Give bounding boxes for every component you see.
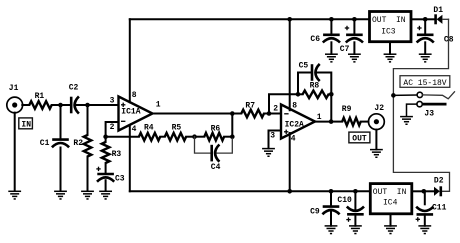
wire D1 to AC rail (443, 18, 448, 20)
wire J1 ground lead (14, 113, 16, 191)
svg-text:C1: C1 (40, 139, 50, 148)
wire C1 ground lead (60, 148, 62, 192)
wire C8 top lead (424, 19, 426, 34)
wire C3 ground lead (105, 180, 107, 191)
capacitor C10 plus sign (346, 217, 350, 221)
wire node to R9 (331, 121, 342, 123)
svg-text:IC4: IC4 (383, 199, 398, 208)
resistor R6 (204, 133, 224, 141)
connector J3 center pin circle (417, 92, 422, 97)
wire IC2A output (315, 121, 331, 123)
svg-text:C6: C6 (310, 35, 320, 44)
ground R2 (81, 191, 94, 199)
svg-text:1: 1 (317, 113, 322, 122)
svg-text:2: 2 (273, 105, 278, 114)
IN box label (19, 118, 33, 130)
wire node to R6 (195, 136, 205, 138)
resistor R5 (165, 133, 186, 141)
wire C6 ground lead (330, 42, 332, 54)
wire R8 to node (329, 93, 332, 95)
ground IC2A pin3 (262, 149, 275, 157)
svg-text:R8: R8 (310, 82, 320, 91)
wire R1 to C1 node (52, 104, 61, 106)
svg-text:R3: R3 (112, 150, 122, 159)
svg-text:8: 8 (132, 91, 137, 100)
wire node to R4 (106, 136, 139, 138)
wire C5 left lead (298, 73, 311, 95)
wire node to R8 (298, 93, 303, 95)
svg-text:J3: J3 (424, 109, 434, 118)
capacitor C9 (322, 207, 339, 215)
wire R7 to node (264, 113, 269, 115)
svg-text:4: 4 (132, 125, 137, 134)
svg-text:C4: C4 (211, 163, 221, 172)
wire J3 center pin (393, 94, 417, 96)
svg-text:IC2A: IC2A (285, 121, 304, 130)
wire C7 top lead (353, 19, 355, 34)
capacitor C10 (347, 207, 364, 215)
capacitor C11 plus sign (416, 217, 420, 221)
AC 15-18V box label (400, 76, 450, 88)
svg-text:C9: C9 (310, 207, 320, 216)
capacitor C4 (212, 145, 220, 162)
capacitor C3 (97, 174, 114, 182)
capacitor C5 (312, 64, 320, 81)
svg-text:2: 2 (110, 123, 115, 132)
op-amp IC1A minus sign (121, 120, 125, 122)
resistor R1 (29, 101, 51, 109)
wire C6 top lead (330, 19, 332, 34)
wire R2 top lead (87, 105, 89, 135)
wire IC2A pin4 to bottom rail (289, 133, 291, 191)
node R5/R6/C4 junction (192, 134, 197, 139)
ground IC3 (384, 54, 397, 62)
svg-text:C5: C5 (299, 62, 309, 71)
wire J1 to R1 (22, 104, 29, 106)
resistor R8 (303, 91, 329, 99)
wire pin2 node up (269, 94, 298, 113)
svg-text:OUT IN: OUT IN (372, 16, 406, 25)
wire R5 to node (186, 136, 194, 138)
wire C4 left lead (195, 137, 211, 153)
node C11/D2 junction (422, 189, 427, 194)
capacitor C1 (52, 140, 69, 148)
op-amp IC1A (119, 97, 153, 131)
capacitor C2 (71, 96, 79, 113)
ground IC4 (384, 226, 397, 234)
ground C8 (419, 54, 432, 62)
ground C3 (99, 191, 112, 199)
diode D2 (434, 186, 441, 196)
op-amp IC2A (281, 105, 315, 139)
wire top supply rail (130, 18, 369, 20)
capacitor C6 (323, 35, 340, 43)
wire C11 top lead (424, 191, 426, 204)
svg-text:IN: IN (21, 121, 31, 130)
capacitor C11 (416, 207, 433, 215)
capacitor C7 (346, 35, 363, 43)
svg-text:R2: R2 (73, 139, 83, 148)
svg-text:8: 8 (292, 102, 297, 111)
wire node to D2 (424, 190, 434, 192)
wire C10 top lead (354, 191, 356, 209)
wire IC3 IN to C8 node (412, 18, 425, 20)
capacitor C7 plus sign (345, 26, 349, 30)
wire C9 ground lead (330, 211, 332, 226)
wire J3 sleeve to ground (407, 104, 417, 116)
wire IC4 ground stub (390, 215, 392, 226)
connector J1 (7, 97, 23, 113)
node IC1A output/feedback junction (230, 111, 235, 116)
svg-text:3: 3 (110, 97, 115, 106)
wire IC4 IN to C11 node (413, 190, 424, 192)
wire C7 ground lead (353, 42, 355, 54)
connector J2 (369, 114, 385, 130)
svg-text:C10: C10 (337, 196, 352, 205)
wire AC rail top (393, 19, 449, 191)
node IC2A output/R9 junction (329, 119, 334, 124)
wire feedback vertical (231, 114, 233, 137)
wire feedback down to output (330, 94, 332, 121)
svg-text:R6: R6 (211, 124, 221, 133)
ground C7 (348, 54, 361, 62)
op-amp IC1A plus sign (121, 103, 125, 107)
capacitor C3 plus sign (96, 167, 100, 171)
svg-text:J1: J1 (9, 84, 19, 93)
wire node to IC2A pin2 (269, 113, 281, 115)
svg-text:R4: R4 (144, 123, 154, 132)
wire bottom supply rail (130, 190, 369, 192)
svg-text:C11: C11 (432, 203, 447, 212)
ground C9 (325, 226, 338, 234)
node bottom rail IC2A pin4 (287, 189, 292, 194)
wire IC1A pin2 to feedback node (106, 122, 119, 137)
svg-text:3: 3 (270, 131, 275, 140)
resistor R4 (139, 133, 160, 141)
resistor R3 (102, 142, 110, 163)
capacitor C8 (417, 35, 434, 43)
wire C2 node to IC1A pin3 (88, 104, 119, 106)
ground C6 (325, 54, 338, 62)
ground J2 (370, 150, 383, 158)
regulator IC4 (370, 184, 412, 214)
svg-text:OUT: OUT (352, 135, 367, 144)
wire J2 ground lead (375, 130, 377, 150)
svg-text:D2: D2 (434, 177, 444, 186)
node R7/IC2A pin2 junction (267, 111, 272, 116)
wire output to R7 (232, 113, 241, 115)
svg-text:C3: C3 (115, 175, 125, 184)
node top rail C6 (329, 17, 334, 22)
wire C2 to node (77, 104, 88, 106)
wire IC2A pin3 to ground (269, 131, 282, 149)
regulator IC3 (370, 12, 412, 42)
svg-text:R5: R5 (172, 123, 182, 132)
diode D1 (436, 14, 443, 24)
node bottom rail C10 (353, 189, 358, 194)
connector J3 sleeve circle (417, 101, 422, 106)
wire R9 to J2 (361, 121, 369, 123)
svg-text:AC 15-18V: AC 15-18V (403, 79, 446, 88)
svg-text:R9: R9 (342, 105, 352, 114)
node IC1A pin2/R3/R4 junction (103, 134, 108, 139)
wire C11 ground lead (424, 214, 426, 225)
resistor R7 (241, 110, 264, 118)
wire IC1A output (153, 113, 233, 115)
node J3 junction (391, 93, 396, 98)
node top rail C7 (352, 17, 357, 22)
node C8/D1 junction (423, 17, 428, 22)
wire IC1A pin4 to bottom rail (129, 125, 131, 191)
wire R2 ground lead (87, 157, 89, 192)
wire node to C2 (61, 104, 71, 106)
svg-text:C2: C2 (69, 84, 79, 93)
svg-text:IC3: IC3 (381, 28, 396, 37)
node R8/C5 right junction (329, 92, 334, 97)
wire IC3 ground stub (389, 43, 391, 54)
svg-text:J2: J2 (374, 104, 384, 113)
wire C4 right lead (217, 137, 232, 153)
wire node to D1 (425, 18, 435, 20)
connector J3 sleeve bar (423, 103, 447, 106)
wire C5 right lead (317, 73, 331, 95)
node C2/R2/pin3 junction (85, 103, 90, 108)
ground J1 (8, 191, 21, 199)
svg-text:4: 4 (291, 135, 296, 144)
node bottom rail C9 (329, 189, 334, 194)
wire R6 to node (224, 136, 232, 138)
svg-text:C7: C7 (340, 45, 350, 54)
wire C10 ground lead (354, 214, 356, 225)
wire node to R3 (105, 137, 107, 142)
wire C1 top lead (60, 105, 62, 139)
svg-text:OUT IN: OUT IN (373, 188, 407, 197)
op-amp IC2A plus sign (284, 130, 288, 134)
wire C8 ground lead (424, 42, 426, 54)
node R8/C5 left junction (296, 92, 301, 97)
ground C10 (349, 226, 362, 234)
ground C11 (418, 226, 431, 234)
wire J3 switch lever (423, 92, 455, 99)
capacitor C8 plus sign (417, 26, 421, 30)
resistor R9 (342, 118, 361, 126)
wire R4 to R5 (160, 136, 165, 138)
svg-text:1: 1 (156, 101, 161, 110)
resistor R2 (84, 135, 92, 157)
svg-text:D1: D1 (433, 6, 443, 15)
node R1/C1/C2 junction (58, 103, 63, 108)
wire IC1A pin8 to top rail (129, 19, 131, 102)
svg-text:R1: R1 (35, 92, 45, 101)
ground J3 (400, 117, 413, 125)
svg-text:R7: R7 (245, 102, 255, 111)
ground C1 (54, 191, 67, 199)
OUT box label (349, 132, 370, 144)
op-amp IC2A minus sign (284, 113, 288, 115)
node R6/C4/output junction (230, 134, 235, 139)
wire C9 top lead (330, 191, 332, 206)
wire R3 to C3 (105, 163, 107, 173)
node top rail IC2A pin8 (287, 17, 292, 22)
svg-text:IC1A: IC1A (121, 108, 140, 117)
wire IC2A pin8 to top rail (289, 19, 291, 110)
